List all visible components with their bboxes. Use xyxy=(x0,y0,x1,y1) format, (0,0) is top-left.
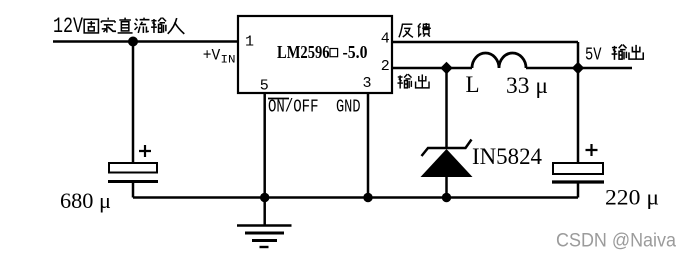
svg-text:ON/OFF: ON/OFF xyxy=(268,98,319,118)
svg-text:33 μ: 33 μ xyxy=(506,73,548,98)
wire diode to rail xyxy=(445,177,448,198)
label output (shu chu) at pin2 xyxy=(397,74,411,88)
wire C1 lead to rail xyxy=(132,183,135,198)
capacitor C1 680u bottom plate xyxy=(108,180,158,183)
IC U1 LM2596 box xyxy=(238,16,392,93)
wire output from pin2 xyxy=(392,67,472,70)
capacitor C1 680u top plate xyxy=(109,163,157,173)
wire input xyxy=(53,40,238,43)
svg-text:2: 2 xyxy=(381,58,390,75)
diode D1 schottky cathode bar xyxy=(422,140,472,157)
capacitor C2 220u plus sign xyxy=(586,144,598,156)
diode D1 triangle xyxy=(421,149,473,177)
svg-text:IN: IN xyxy=(221,55,236,67)
wire bottom rail xyxy=(133,196,578,199)
svg-text:-5.0: -5.0 xyxy=(343,42,368,62)
svg-text:GND: GND xyxy=(336,98,361,118)
svg-text:+V: +V xyxy=(203,47,221,65)
glyph liu xyxy=(135,18,150,33)
glyph ru xyxy=(168,18,185,34)
svg-text:3: 3 xyxy=(363,75,372,92)
diode D1 wire from output node xyxy=(445,68,448,147)
label feedback (fan kui) xyxy=(399,24,413,37)
svg-text:5V: 5V xyxy=(585,46,602,66)
svg-text:680 μ: 680 μ xyxy=(60,188,111,213)
svg-text:12V: 12V xyxy=(53,14,84,39)
svg-text:IN5824: IN5824 xyxy=(472,144,542,169)
svg-text:CSDN @Naiva: CSDN @Naiva xyxy=(556,231,676,252)
node output junction to diode xyxy=(440,62,452,74)
glyph zhi xyxy=(118,18,133,33)
svg-text:L: L xyxy=(466,72,480,97)
capacitor C1 680u plus sign xyxy=(139,145,151,157)
wire left vertical to C1 xyxy=(132,42,135,164)
node rail junction at pin5 xyxy=(260,193,269,202)
svg-text:LM2596: LM2596 xyxy=(277,42,330,62)
inductor L1 xyxy=(472,53,526,68)
wire pin5 to rail xyxy=(263,94,266,198)
wire C2 lead to rail xyxy=(577,184,580,198)
svg-text:1: 1 xyxy=(245,33,254,50)
wire inductor to 5V output xyxy=(526,67,632,70)
svg-text:5: 5 xyxy=(260,78,269,95)
node output junction right xyxy=(572,62,584,74)
wire feedback from pin4 xyxy=(392,42,578,68)
glyph shu xyxy=(151,18,166,33)
node input junction xyxy=(128,37,138,47)
capacitor C2 220u bottom plate xyxy=(552,180,604,183)
wire right vertical to C2 xyxy=(577,68,580,163)
node rail junction at diode xyxy=(442,193,451,202)
ground xyxy=(263,198,266,226)
node rail junction at pin3 xyxy=(363,193,372,202)
capacitor C2 220u top plate xyxy=(553,163,603,174)
svg-text:4: 4 xyxy=(381,31,390,48)
glyph ding xyxy=(101,18,116,33)
wire pin3 to rail xyxy=(367,94,370,198)
glyph gu xyxy=(84,19,98,33)
svg-text:220 μ: 220 μ xyxy=(605,185,659,210)
